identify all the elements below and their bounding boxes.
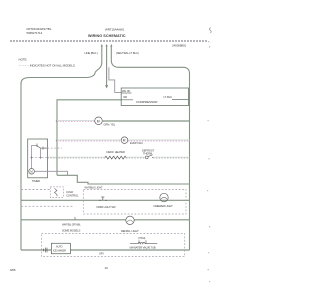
svg-text:WH. BL: WH. BL [122, 89, 131, 93]
ground arrow [106, 44, 108, 46]
refrig light lamp [126, 216, 134, 224]
compressor box [121, 88, 188, 106]
compressor lt.blu terminal line [172, 99, 189, 101]
ground arrowhead down [105, 85, 108, 88]
svg-text:10: 10 [105, 266, 109, 270]
cold control feed dashed wire [21, 189, 50, 191]
evap fan motor circle [121, 137, 128, 144]
ground wire grn-yel [106, 46, 108, 85]
power cord line wire (black) [21, 46, 102, 84]
svg-text:COMPRESSOR: COMPRESSOR [136, 100, 158, 104]
defrost timer box [28, 139, 48, 178]
header rule [10, 40, 207, 42]
page edge specks [207, 41, 210, 282]
timer motor [29, 169, 35, 175]
timer inner vertical wire [31, 145, 33, 168]
svg-text:(YWH): (YWH) [138, 236, 146, 240]
dashed stub wire [21, 205, 73, 207]
svg-text:TIMER: TIMER [32, 179, 40, 183]
header model text left [27, 27, 52, 35]
svg-text:ICE MAKER: ICE MAKER [53, 249, 66, 252]
svg-text:M: M [97, 119, 100, 123]
svg-text:FREEZER LIGHT: FREEZER LIGHT [154, 204, 174, 208]
bus junction tick 3 [56, 156, 58, 158]
svg-text:FRZR LIGHT SW.: FRZR LIGHT SW. [97, 205, 117, 209]
freezer door switch [99, 197, 107, 200]
svg-text:EVAP. FAN: EVAP. FAN [130, 141, 143, 145]
svg-text:WRT15A4AW1: WRT15A4AW1 [105, 28, 125, 32]
main feed wire to compressor [57, 100, 121, 176]
left border wire [20, 83, 22, 250]
svg-text:240368801: 240368801 [172, 44, 187, 48]
timer motor row dashed wire [32, 157, 48, 159]
wh-bl relay jog wire [109, 67, 121, 92]
freezer circuit feed wire [57, 175, 190, 184]
bottom rail wire [21, 249, 190, 251]
water valve coil [130, 242, 157, 244]
svg-text:COLD: COLD [66, 190, 73, 194]
grn yel ground wire solid [102, 120, 190, 122]
timer inner vertical 2 [39, 148, 41, 158]
svg-text:M: M [123, 139, 126, 143]
svg-text:(NEUTRAL LT. BLU): (NEUTRAL LT. BLU) [116, 51, 139, 55]
ice maker dashed enclosure [41, 234, 184, 257]
svg-text:5995271714: 5995271714 [27, 31, 43, 35]
svg-text:GRY: GRY [99, 253, 104, 256]
svg-text:- - - - - - : INDICATES NOT: - - - - - - : INDICATES NOT ON ALL MODEL… [19, 63, 76, 67]
svg-text:9/95: 9/95 [10, 268, 16, 272]
timer motor outlet wire [34, 171, 67, 175]
svg-text:CONTROL: CONTROL [66, 194, 79, 198]
bus junction tick 1 [56, 120, 58, 122]
timer cam switch [32, 145, 47, 148]
junction tick [74, 217, 76, 220]
compressor wh.bl underline [121, 92, 131, 94]
timer switch row dashed wire [48, 147, 63, 149]
svg-text:DEFR. HEATER: DEFR. HEATER [107, 150, 125, 154]
page edge curl mark [210, 28, 212, 34]
right border wire [189, 88, 191, 250]
ice maker plug symbol [44, 248, 48, 253]
svg-text:SOME MODELS: SOME MODELS [62, 228, 81, 232]
cold control switch symbol [55, 189, 58, 197]
defrost termination thermostat [145, 155, 153, 159]
svg-text:LT. BLU: LT. BLU [164, 95, 173, 99]
timer terminal tick 2 [36, 144, 38, 148]
line arrow [101, 44, 103, 46]
valve ticks [138, 240, 140, 244]
compressor rd terminal line [121, 99, 133, 101]
note text [19, 58, 76, 68]
svg-text:M: M [30, 170, 33, 174]
evap fan dashed wire left [57, 140, 121, 141]
svg-text:I/M WATER VALVE TUB: I/M WATER VALVE TUB [130, 246, 156, 250]
light circuit wire [21, 199, 190, 201]
svg-text:GRN. YEL: GRN. YEL [104, 123, 116, 127]
freezer light dashed enclosure [84, 190, 187, 215]
svg-text:REFRIG. LIGHT: REFRIG. LIGHT [121, 229, 139, 233]
neutral arrow [110, 44, 112, 46]
svg-text:WHT/BL GRY/BL: WHT/BL GRY/BL [62, 223, 81, 227]
svg-text:AUTO: AUTO [56, 246, 63, 249]
svg-text:WIRING SCHEMATIC: WIRING SCHEMATIC [88, 34, 126, 38]
neutral wire [111, 46, 189, 88]
defrost circuit dashed wire [48, 156, 190, 159]
timer switch contact tick 1 [42, 147, 44, 150]
cond fan dashed wire [57, 121, 95, 122]
cold control dashed box [50, 187, 63, 198]
svg-text:LINE (BLK.): LINE (BLK.) [85, 51, 98, 55]
auto ice maker box [51, 243, 70, 253]
evap fan dashed wire right [128, 140, 190, 141]
bus junction tick 2 [56, 139, 58, 141]
refrig light wire [21, 219, 190, 221]
defrost heater element [105, 156, 126, 159]
svg-text:NOTE:: NOTE: [19, 58, 28, 62]
cond fan motor circle [95, 117, 103, 125]
svg-text:RD: RD [124, 95, 128, 99]
freezer light lamp [160, 193, 168, 201]
